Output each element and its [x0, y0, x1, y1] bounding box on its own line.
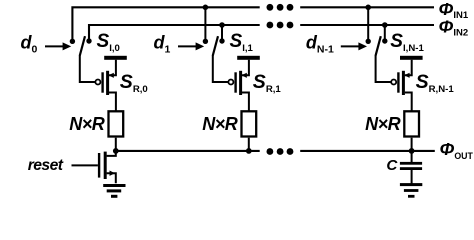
resistor N×R of cell 2: [404, 111, 419, 136]
resistor N×R of cell 0: [109, 111, 124, 136]
svg-text:C: C: [386, 157, 398, 174]
wire phi_OUT rail (left segment): [116, 150, 260, 152]
wire phi_OUT node down to capacitor C: [411, 151, 413, 163]
transistor S_R,1 drain lead to resistor: [242, 93, 249, 112]
transistor reset channel bar: [104, 152, 107, 179]
supply bar above S_R,0: [104, 56, 127, 60]
switch S_I,1 right contact: [219, 38, 224, 43]
node on phi_IN2 rail for cell 1: [219, 22, 225, 28]
wire phi_IN2 rail (right segment): [300, 24, 434, 26]
switch S_I,0 right contact: [86, 38, 91, 43]
transistor S_R,N-1 gate bubble: [391, 80, 396, 85]
svg-text:N×R: N×R: [365, 114, 401, 134]
switch S_I,N-1 blade: [376, 36, 381, 55]
wire from phi_IN2 rail down to switch S_I,1 right contact: [221, 25, 223, 41]
switch S_I,1 left contact: [203, 39, 208, 44]
control arrow from d0 to switch: [45, 45, 64, 47]
wire switch pole to gate of S_R,1: [213, 55, 228, 82]
svg-text:SI,N-1: SI,N-1: [390, 31, 424, 54]
transistor S_R,N-1 source arrow: [404, 73, 409, 78]
transistor S_R,N-1 drain lead to resistor: [405, 93, 412, 112]
continuation dots on phi_OUT rail: [267, 148, 274, 155]
svg-text:d0: d0: [21, 33, 38, 56]
ground below capacitor C: [400, 183, 422, 186]
node on phi_IN2 rail for cell 2: [382, 22, 388, 28]
transistor S_R,N-1 gate bar: [397, 72, 399, 92]
switch S_I,0 left contact: [70, 39, 75, 44]
node resistor 0 / phi_OUT rail junction: [113, 148, 119, 154]
node resistor 1 / phi_OUT rail junction: [246, 148, 252, 154]
wire from phi_IN2 rail down to switch S_I,N-1 right contact: [384, 25, 386, 41]
svg-text:N×R: N×R: [202, 114, 238, 134]
wire switch pole to gate of S_R,0: [80, 55, 95, 82]
svg-text:SR,0: SR,0: [120, 71, 148, 95]
wire switch pole to gate of S_R,N-1: [376, 55, 391, 82]
node resistor 2 / phi_OUT rail junction: [409, 148, 415, 154]
switch S_I,N-1 right contact: [382, 38, 387, 43]
transistor S_R,0 channel bar: [106, 71, 109, 95]
transistor reset source lead to ground: [107, 173, 116, 183]
transistor reset drain lead to phi_OUT node: [107, 152, 116, 156]
transistor S_R,1 gate bar: [234, 72, 236, 92]
wire from phi_IN1 rail down to switch S_I,1 left contact: [204, 7, 206, 41]
svg-text:reset: reset: [28, 157, 64, 174]
wire phi_IN2 rail (left segment, corner down to cell-0 switch contact): [89, 25, 260, 41]
wire resistor 1 bottom to phi_OUT rail: [248, 138, 250, 151]
transistor S_R,0 drain lead to resistor: [109, 93, 116, 112]
node on phi_IN1 rail for cell 2: [365, 5, 371, 11]
wire capacitor C to ground: [411, 170, 413, 184]
svg-text:d1: d1: [154, 33, 171, 56]
svg-text:SI,0: SI,0: [97, 31, 120, 54]
transistor S_R,1 source arrow: [241, 73, 246, 78]
svg-text:ΦOUT: ΦOUT: [440, 139, 474, 161]
transistor reset gate bar: [98, 153, 100, 178]
supply bar above S_R,N-1: [400, 56, 423, 60]
transistor S_R,N-1 channel bar: [402, 71, 405, 95]
switch S_I,0 blade: [80, 36, 85, 55]
wire phi_OUT rail (right segment): [300, 150, 435, 152]
continuation dots on phi_IN2 rail: [267, 22, 274, 29]
transistor S_R,1 gate bubble: [228, 80, 233, 85]
node on phi_IN1 rail for cell 1: [203, 5, 209, 11]
resistor N×R of cell 1: [242, 111, 257, 136]
control arrow from dN-1 to switch: [341, 45, 360, 47]
continuation dots on phi_IN1 rail: [267, 4, 274, 11]
transistor S_R,1 channel bar: [239, 71, 242, 95]
switch S_I,1 blade: [213, 36, 218, 55]
capacitor C bottom plate: [400, 167, 422, 170]
svg-text:SI,1: SI,1: [230, 31, 254, 54]
transistor S_R,0 gate bar: [101, 72, 103, 92]
wire phi_IN1 rail (right segment): [300, 6, 434, 8]
svg-text:dN-1: dN-1: [306, 33, 334, 56]
wire phi_IN1 rail (left segment, corner down to cell-0 switch contact): [72, 7, 259, 41]
transistor S_R,1 source lead to supply bar: [242, 60, 249, 75]
control arrow from d1 to switch: [178, 45, 197, 47]
wire from phi_IN1 rail down to switch S_I,N-1 left contact: [367, 7, 369, 41]
switch S_I,N-1 left contact: [366, 39, 371, 44]
wire resistor 2 bottom to phi_OUT rail: [411, 138, 413, 151]
svg-text:SR,N-1: SR,N-1: [416, 71, 455, 95]
transistor S_R,N-1 source lead to supply bar: [405, 60, 412, 75]
svg-text:N×R: N×R: [69, 114, 105, 134]
transistor S_R,0 source arrow: [108, 73, 113, 78]
wire resistor 0 bottom to phi_OUT rail: [115, 138, 117, 151]
transistor S_R,0 source lead to supply bar: [109, 60, 116, 75]
wire reset gate lead: [72, 164, 98, 166]
svg-text:SR,1: SR,1: [253, 71, 282, 95]
transistor reset source arrow: [110, 171, 116, 176]
transistor S_R,0 gate bubble: [95, 80, 100, 85]
ground below reset transistor: [103, 184, 125, 187]
supply bar above S_R,1: [237, 56, 260, 60]
capacitor C top plate: [400, 162, 422, 165]
